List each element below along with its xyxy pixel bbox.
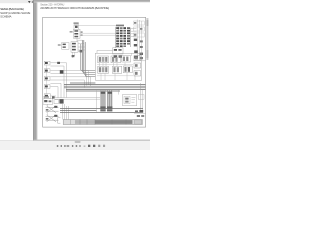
valve cluster upper-left V1 bbox=[73, 29, 80, 38]
sidebar right border bbox=[32, 0, 35, 140]
page background bbox=[0, 0, 150, 150]
relief valve boxes right bbox=[134, 56, 141, 76]
valve V1 label bbox=[74, 22, 79, 24]
pump P2 crossed symbol bbox=[46, 115, 59, 122]
pump P1 crossed symbol bbox=[46, 106, 59, 113]
accessory box bottom right bbox=[122, 95, 136, 106]
right edge valve stack specks bbox=[134, 22, 143, 59]
cylinder stripe column left fill bbox=[100, 90, 105, 108]
left valve column item 3 bbox=[44, 77, 50, 81]
schematic sheet frame bbox=[43, 17, 146, 127]
valve V3 bottom speck bbox=[72, 55, 75, 57]
sidebar header icon arrow bbox=[28, 1, 31, 3]
wire horizontal bus bundle bbox=[64, 83, 145, 91]
sidebar panel header strip bbox=[0, 0, 33, 3]
bottom toolbar bbox=[0, 141, 150, 151]
cylinder top cap left bbox=[101, 92, 106, 94]
toolbar minus icon bbox=[79, 145, 81, 147]
main control valve block outline bbox=[95, 53, 141, 80]
control valve spool A2 bbox=[111, 56, 120, 63]
wire inside block verticals bbox=[100, 53, 136, 80]
left valve column item 1 bbox=[44, 61, 50, 65]
pilot valve bank cells bbox=[116, 27, 130, 47]
cylinder stripe column right fill bbox=[107, 90, 112, 108]
pilot bank right wires bbox=[131, 29, 137, 37]
wire right drop lines bbox=[140, 83, 142, 112]
wire column link vertical bbox=[97, 90, 119, 113]
control valve spool A3 bbox=[122, 56, 131, 62]
cylinder cap left bbox=[100, 106, 105, 108]
wire junction blob bbox=[60, 70, 64, 73]
bundle top speck bbox=[80, 50, 83, 52]
wire drops second group bbox=[108, 90, 112, 108]
toolbar nav prev icon bbox=[61, 145, 62, 147]
left valve column item 4 bbox=[44, 85, 50, 89]
left column rail bbox=[45, 65, 47, 94]
travel assembly mid section bbox=[75, 120, 95, 124]
toolbar fit icon 2 bbox=[103, 145, 105, 147]
left valve column item 2 bbox=[44, 69, 50, 73]
svg-text:Section 220 - HYDRAU: Section 220 - HYDRAU bbox=[40, 3, 64, 6]
toolbar fit icon bbox=[98, 145, 100, 147]
svg-text:220.6B6 2D HYDRAULIC CIRCUIT D: 220.6B6 2D HYDRAULIC CIRCUIT DIAGRAMS (B… bbox=[40, 6, 109, 10]
pilot valve bank rails bbox=[115, 27, 130, 48]
bracket before travel bar bbox=[58, 118, 61, 124]
wire staircase runs from left column bbox=[50, 63, 90, 98]
svg-text:SCHEMA: SCHEMA bbox=[0, 15, 11, 19]
page bottom edge bbox=[33, 139, 150, 142]
toolbar zoom box icon bbox=[88, 145, 90, 147]
right overflow smudge beyond frame bbox=[146, 18, 148, 60]
toolbar zoom box icon 2 bbox=[93, 145, 95, 147]
wire speck upper bbox=[57, 62, 60, 64]
travel assembly dark section bbox=[95, 120, 132, 124]
valve V1 arrow specks bbox=[81, 31, 83, 32]
toolbar nav next icon bbox=[72, 145, 73, 147]
viewer top strip bbox=[33, 0, 150, 2]
wire top horizontal run bbox=[74, 25, 116, 27]
toolbar top border bbox=[0, 139, 150, 142]
control valve spool B1 bbox=[98, 66, 109, 73]
cylinder cap right bbox=[107, 106, 112, 108]
right small box bbox=[138, 95, 144, 100]
wire inside block runs bbox=[97, 65, 133, 76]
toolbar scroll thumb bbox=[75, 141, 81, 143]
toolbar nav last icon bbox=[76, 145, 78, 147]
control valve spool B3 bbox=[123, 66, 132, 73]
valve V1 top box bbox=[74, 25, 79, 30]
svg-text:SHOP (LOADING SHOVE: SHOP (LOADING SHOVE bbox=[0, 11, 30, 15]
wire sub box to block bbox=[97, 50, 113, 53]
cylinder top cap right bbox=[107, 92, 112, 94]
pilot bank sub box bbox=[113, 48, 123, 54]
travel assembly ticks bbox=[80, 120, 126, 125]
wire upper mid runs bbox=[80, 33, 116, 35]
left valve column item 5 bbox=[44, 94, 50, 99]
viewer gutter strip bbox=[33, 0, 37, 140]
wire pump delivery lines bbox=[60, 109, 143, 113]
right edge valve stack top boxes bbox=[134, 21, 145, 37]
travel assembly end box bbox=[135, 120, 142, 124]
wire pump column links bbox=[47, 104, 49, 115]
right edge assembly bottom line bbox=[133, 60, 145, 62]
toolbar nav first icon bbox=[57, 145, 59, 147]
right terminal marks row bbox=[135, 110, 138, 112]
control valve spool B2 bbox=[112, 66, 121, 73]
wire hose bundle vertical with elbow bbox=[81, 40, 96, 77]
valve bracket V2 bbox=[62, 43, 69, 50]
pilot valve bank label bbox=[116, 25, 124, 27]
wire V1 link down bbox=[77, 38, 82, 41]
valve V1 side label bbox=[70, 31, 73, 33]
wire V3 bottom drops bbox=[72, 52, 74, 58]
valve V2 side label bbox=[58, 44, 61, 46]
lower bundle left speck bbox=[52, 96, 55, 98]
svg-text:SEMA (BACKHOE): SEMA (BACKHOE) bbox=[0, 7, 24, 11]
sidebar header icon box bbox=[32, 1, 34, 3]
wire V3 links right bbox=[78, 44, 85, 51]
pilot sub box lower cells bbox=[114, 55, 117, 58]
pump module top row bbox=[43, 99, 64, 104]
wire pump outlet verticals bbox=[63, 104, 69, 119]
long travel assembly bar outline bbox=[63, 120, 142, 125]
wire drops from bus to cylinders bbox=[101, 90, 105, 108]
valve cluster V3 bbox=[71, 42, 78, 53]
wire lower bundle bbox=[53, 98, 100, 100]
control valve spool A1 bbox=[98, 56, 109, 63]
pump module label bbox=[44, 96, 49, 98]
right edge valve stack rails bbox=[137, 20, 142, 61]
toolbar page number text bbox=[64, 145, 66, 147]
travel assembly tick bbox=[69, 120, 71, 125]
